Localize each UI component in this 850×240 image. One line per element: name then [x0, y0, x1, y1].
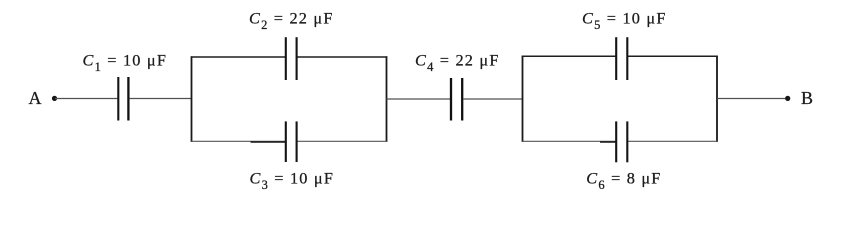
wire: left box right vertical [386, 56, 388, 142]
C3 right plate [296, 121, 298, 162]
wire: top branch left segment [522, 55, 617, 57]
C2 right plate [296, 37, 298, 80]
wire: dark lead into C6 [600, 141, 616, 143]
C4 right plate [461, 78, 463, 121]
left parallel group loop (C2 and C3) [191, 56, 388, 142]
wire: dark lead into C3 [251, 141, 286, 143]
svg-text:C4 = 22 μF: C4 = 22 μF [415, 51, 500, 75]
wire: right box right vertical [716, 56, 718, 142]
C5 left plate [615, 37, 617, 80]
capacitor C2 [249, 9, 334, 80]
wire: bottom branch right segment [627, 140, 718, 142]
wire: bottom branch left segment [191, 140, 286, 142]
wire left parallel group to C4 [387, 98, 452, 100]
capacitor C5 [582, 9, 667, 80]
C1 left plate [117, 77, 119, 121]
right parallel group loop (C5 and C6) [522, 56, 718, 142]
wire node A to C1 [55, 98, 118, 100]
wire: right box left vertical [522, 56, 524, 142]
wire: bottom branch left segment [522, 140, 617, 142]
capacitor C3 [250, 121, 335, 191]
wire C1 to left parallel group [130, 98, 192, 100]
wire: top branch left segment [191, 56, 286, 58]
capacitor C6 [586, 121, 661, 191]
svg-text:C1 = 10 μF: C1 = 10 μF [83, 51, 168, 75]
C4 left plate [450, 78, 452, 121]
node B [785, 88, 813, 108]
wire: top branch right segment [627, 55, 718, 57]
wire: top branch right segment [297, 56, 388, 58]
svg-text:C3 = 10 μF: C3 = 10 μF [250, 168, 335, 192]
C5 right plate [626, 37, 628, 80]
wire: bottom branch right segment [297, 140, 388, 142]
C2 left plate [285, 37, 287, 80]
node A [29, 88, 58, 108]
svg-text:C6 = 8 μF: C6 = 8 μF [586, 168, 661, 192]
C3 left plate [285, 121, 287, 162]
svg-text:C2 = 22 μF: C2 = 22 μF [249, 9, 334, 32]
wire: left box left vertical [191, 56, 193, 142]
svg-text:A: A [29, 88, 42, 108]
svg-text:C5 = 10 μF: C5 = 10 μF [582, 9, 667, 32]
capacitor C1 [83, 51, 168, 121]
wire right parallel group to node B [717, 98, 788, 100]
wire C4 to right parallel group [463, 98, 522, 100]
C6 right plate [626, 121, 628, 162]
C1 right plate [127, 77, 129, 121]
capacitor C4 [415, 51, 500, 121]
svg-text:B: B [801, 88, 813, 108]
C6 left plate [615, 121, 617, 162]
